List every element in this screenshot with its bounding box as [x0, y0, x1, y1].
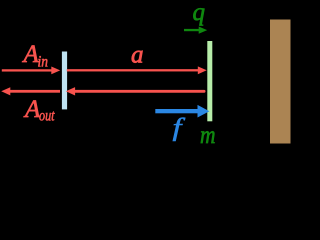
wall (brown block)	[270, 20, 291, 144]
arrow f (blue, radiation-pressure force on mirror)	[155, 105, 209, 118]
mirror M1 (semi-transparent input mirror, light blue bar)	[62, 52, 67, 110]
svg-text:q: q	[193, 0, 206, 26]
wire: intracavity arrow left (red, reflected field)	[66, 87, 206, 95]
svg-text:out: out	[39, 107, 55, 124]
svg-text:m: m	[200, 122, 216, 149]
svg-text:a: a	[131, 42, 144, 69]
wire: intracavity arrow right (red, toward movable mirror)	[67, 66, 207, 74]
arrow q (green, displacement direction)	[184, 27, 207, 34]
arrow A_out (red, pointing left out of cavity)	[1, 87, 60, 95]
svg-text:in: in	[38, 53, 49, 70]
mirror m (movable mirror, pale green bar)	[207, 41, 212, 121]
arrow A_in (red, pointing right into cavity)	[2, 67, 60, 75]
